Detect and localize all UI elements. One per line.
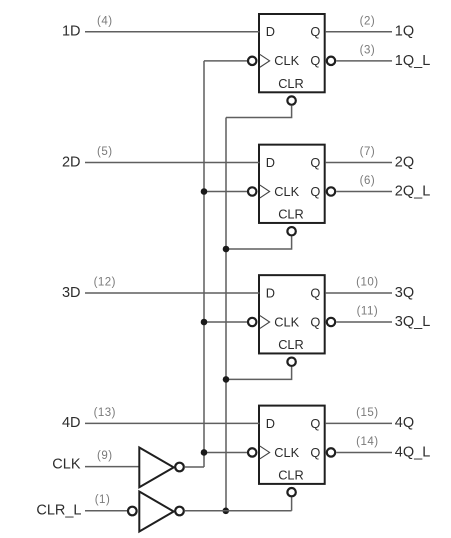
- svg-text:1Q: 1Q: [395, 24, 414, 40]
- wire FF3 CLR branch: [226, 367, 292, 379]
- junction dot CLK-FF2: [201, 188, 208, 195]
- svg-text:(12): (12): [94, 276, 116, 288]
- FF2 Q_L inversion bubble: [327, 187, 335, 195]
- junction dot CLK-FF4: [201, 449, 208, 456]
- svg-text:(5): (5): [97, 146, 113, 158]
- FF3 Q_L inversion bubble: [327, 318, 335, 326]
- inverter CLK buffer: [139, 448, 184, 488]
- wire FF1 CLR branch: [226, 106, 292, 118]
- svg-text:(1): (1): [95, 494, 111, 506]
- junction dot CLK-FF3: [201, 319, 208, 326]
- svg-text:(3): (3): [360, 44, 376, 56]
- svg-text:Q: Q: [310, 285, 320, 300]
- wire FF2 CLK branch: [204, 191, 247, 193]
- svg-text:CLK: CLK: [52, 457, 81, 473]
- FF1 CLR inversion bubble: [287, 96, 295, 104]
- junction dot CLR-FF4: [223, 508, 230, 515]
- svg-text:CLR: CLR: [278, 76, 304, 91]
- FF3 CLK inversion bubble: [248, 318, 256, 326]
- svg-text:D: D: [266, 155, 275, 170]
- FF3 CLR inversion bubble: [287, 358, 295, 366]
- svg-text:(2): (2): [360, 15, 376, 27]
- svg-text:3D: 3D: [62, 285, 81, 301]
- wire 3Q output: [325, 292, 392, 294]
- svg-text:(11): (11): [357, 306, 379, 318]
- svg-text:2Q: 2Q: [395, 154, 414, 170]
- svg-text:CLK: CLK: [274, 53, 299, 68]
- svg-text:Q: Q: [310, 314, 320, 329]
- svg-text:Q: Q: [310, 184, 320, 199]
- svg-text:3Q_L: 3Q_L: [395, 314, 430, 330]
- svg-text:CLR_L: CLR_L: [36, 502, 81, 518]
- svg-text:4Q: 4Q: [395, 415, 414, 431]
- wire FF3 CLK branch: [204, 321, 247, 323]
- wire 2Q_L output: [336, 191, 392, 193]
- svg-text:CLR: CLR: [278, 337, 304, 352]
- svg-text:CLK: CLK: [274, 314, 299, 329]
- wire CLK buffer output: [184, 466, 204, 468]
- D flip-flop FF3 body: [259, 275, 325, 353]
- svg-text:(7): (7): [360, 146, 376, 158]
- FF2 CLK inversion bubble: [248, 187, 256, 195]
- svg-text:(13): (13): [94, 407, 116, 419]
- svg-text:Q: Q: [310, 416, 320, 431]
- svg-text:D: D: [266, 416, 275, 431]
- wire 3D input: [85, 292, 260, 294]
- D flip-flop FF2 body: [259, 145, 325, 223]
- svg-text:Q: Q: [310, 155, 320, 170]
- junction dot CLR-FF3: [223, 376, 230, 383]
- FF2 CLR inversion bubble: [287, 227, 295, 235]
- svg-text:1D: 1D: [62, 24, 81, 40]
- wire 3Q_L output: [336, 321, 392, 323]
- svg-text:Q: Q: [310, 445, 320, 460]
- svg-text:(15): (15): [356, 407, 378, 419]
- svg-text:1Q_L: 1Q_L: [395, 53, 430, 69]
- svg-text:(9): (9): [97, 450, 113, 462]
- FF1 CLK inversion bubble: [248, 57, 256, 65]
- D flip-flop FF1 body: [259, 14, 325, 92]
- FF1 Q_L inversion bubble: [327, 57, 335, 65]
- FF4 Q_L inversion bubble: [327, 448, 335, 456]
- FF4 CLK inversion bubble: [248, 448, 256, 456]
- wire 4Q_L output: [336, 451, 392, 453]
- node CLR bus vertical: [225, 118, 227, 511]
- wire 4Q output: [325, 422, 392, 424]
- wire 2D input: [85, 161, 260, 163]
- svg-text:CLK: CLK: [274, 184, 299, 199]
- wire FF4 CLR drop: [291, 497, 293, 510]
- inverter CLR_L with input bubble: [128, 492, 184, 532]
- wire CLR_L input: [85, 510, 127, 512]
- wire CLK input: [85, 466, 139, 468]
- wire CLR buffer output to FF4 CLR: [184, 510, 291, 512]
- svg-text:2D: 2D: [62, 154, 81, 170]
- wire 2Q output: [325, 161, 392, 163]
- svg-text:CLK: CLK: [274, 445, 299, 460]
- svg-text:Q: Q: [310, 24, 320, 39]
- wire FF4 CLK branch: [204, 451, 247, 453]
- svg-text:(10): (10): [356, 276, 378, 288]
- wire 1Q output: [325, 31, 392, 33]
- svg-text:Q: Q: [310, 53, 320, 68]
- svg-text:2Q_L: 2Q_L: [395, 184, 430, 200]
- svg-text:CLR: CLR: [278, 468, 304, 483]
- node CLK bus vertical: [203, 61, 205, 467]
- svg-text:4D: 4D: [62, 415, 81, 431]
- D flip-flop FF4 body: [259, 406, 325, 484]
- svg-text:4Q_L: 4Q_L: [395, 445, 430, 461]
- junction dot CLR-FF2: [223, 246, 230, 253]
- svg-text:(6): (6): [360, 175, 376, 187]
- wire 1Q_L output: [336, 60, 392, 62]
- svg-text:D: D: [266, 285, 275, 300]
- wire FF1 CLK branch: [204, 60, 247, 62]
- svg-text:D: D: [266, 24, 275, 39]
- svg-text:(4): (4): [97, 15, 113, 27]
- svg-text:(14): (14): [356, 436, 378, 448]
- wire FF2 CLR branch: [226, 237, 292, 250]
- svg-text:3Q: 3Q: [395, 285, 414, 301]
- FF4 CLR inversion bubble: [287, 488, 295, 496]
- wire 1D input: [85, 31, 260, 33]
- wire 4D input: [85, 422, 260, 424]
- svg-text:CLR: CLR: [278, 207, 304, 222]
